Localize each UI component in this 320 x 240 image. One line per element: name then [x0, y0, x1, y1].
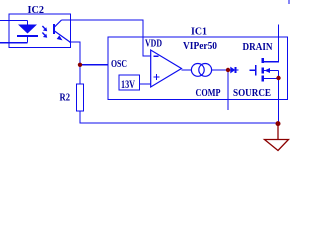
wire cathode left: [0, 42, 28, 44]
minus sign: [154, 55, 159, 57]
svg-text:13V: 13V: [121, 79, 135, 91]
node B junction dot: [226, 68, 230, 72]
op-amp comparator U1: [151, 50, 182, 87]
LED diode of IC2: [18, 25, 37, 34]
top right wire tick: [288, 0, 290, 4]
svg-text:SOURCE: SOURCE: [233, 88, 271, 99]
light arrow 2: [42, 33, 47, 38]
node source-body junction dot: [276, 76, 280, 80]
plus sign: [154, 74, 160, 80]
ground: [265, 124, 289, 151]
wire gate: [249, 69, 255, 71]
wire source stub: [264, 78, 279, 80]
node rail junction dot: [276, 121, 281, 126]
gate drive bar: [234, 67, 236, 73]
wire R2 to ground rail: [80, 111, 278, 123]
resistor R2: [77, 84, 84, 111]
wire node A to OSC pin: [80, 64, 108, 66]
phototransistor base bar: [53, 24, 55, 34]
wire collector to VDD pin: [62, 20, 151, 56]
wire body stub: [264, 70, 279, 72]
wire source pin SOURCE to rail: [278, 71, 280, 124]
current source circles: [191, 64, 204, 77]
svg-text:VDD: VDD: [145, 38, 162, 49]
wire 13V to plus input: [140, 83, 151, 85]
svg-text:IC1: IC1: [191, 26, 207, 38]
wire anode left: [0, 20, 28, 22]
svg-text:OSC: OSC: [111, 59, 127, 70]
wire COMP pin: [227, 70, 229, 110]
phototransistor emitter diagonal with arrow: [55, 31, 71, 42]
wire drain pin DRAIN: [264, 25, 279, 62]
svg-text:VIPer50: VIPer50: [183, 41, 217, 52]
wire gate drive: [235, 69, 238, 71]
13V reference box: [119, 75, 140, 90]
optocoupler IC2 box: [9, 14, 71, 48]
light arrow 1: [42, 26, 47, 31]
transistor Q1 channel segments: [261, 58, 264, 82]
svg-text:R2: R2: [60, 92, 71, 104]
transistor Q1 body arrow: [265, 68, 271, 73]
wire emitter to node A: [69, 42, 80, 65]
svg-text:DRAIN: DRAIN: [243, 42, 273, 53]
wire current source to node B: [212, 69, 229, 71]
gate drive arrowhead: [228, 67, 235, 74]
wire comparator output: [182, 69, 192, 71]
transistor Q1 gate bar: [255, 65, 257, 76]
wire node A to R2: [79, 65, 81, 84]
LED cathode bar: [17, 35, 38, 37]
svg-text:IC2: IC2: [28, 4, 45, 16]
IC1 box: [108, 37, 288, 100]
wire LED anode lead: [27, 21, 29, 26]
phototransistor collector diagonal: [55, 20, 62, 27]
svg-text:COMP: COMP: [196, 88, 221, 99]
wire LED cathode lead: [27, 37, 29, 43]
node A junction dot: [78, 63, 82, 67]
